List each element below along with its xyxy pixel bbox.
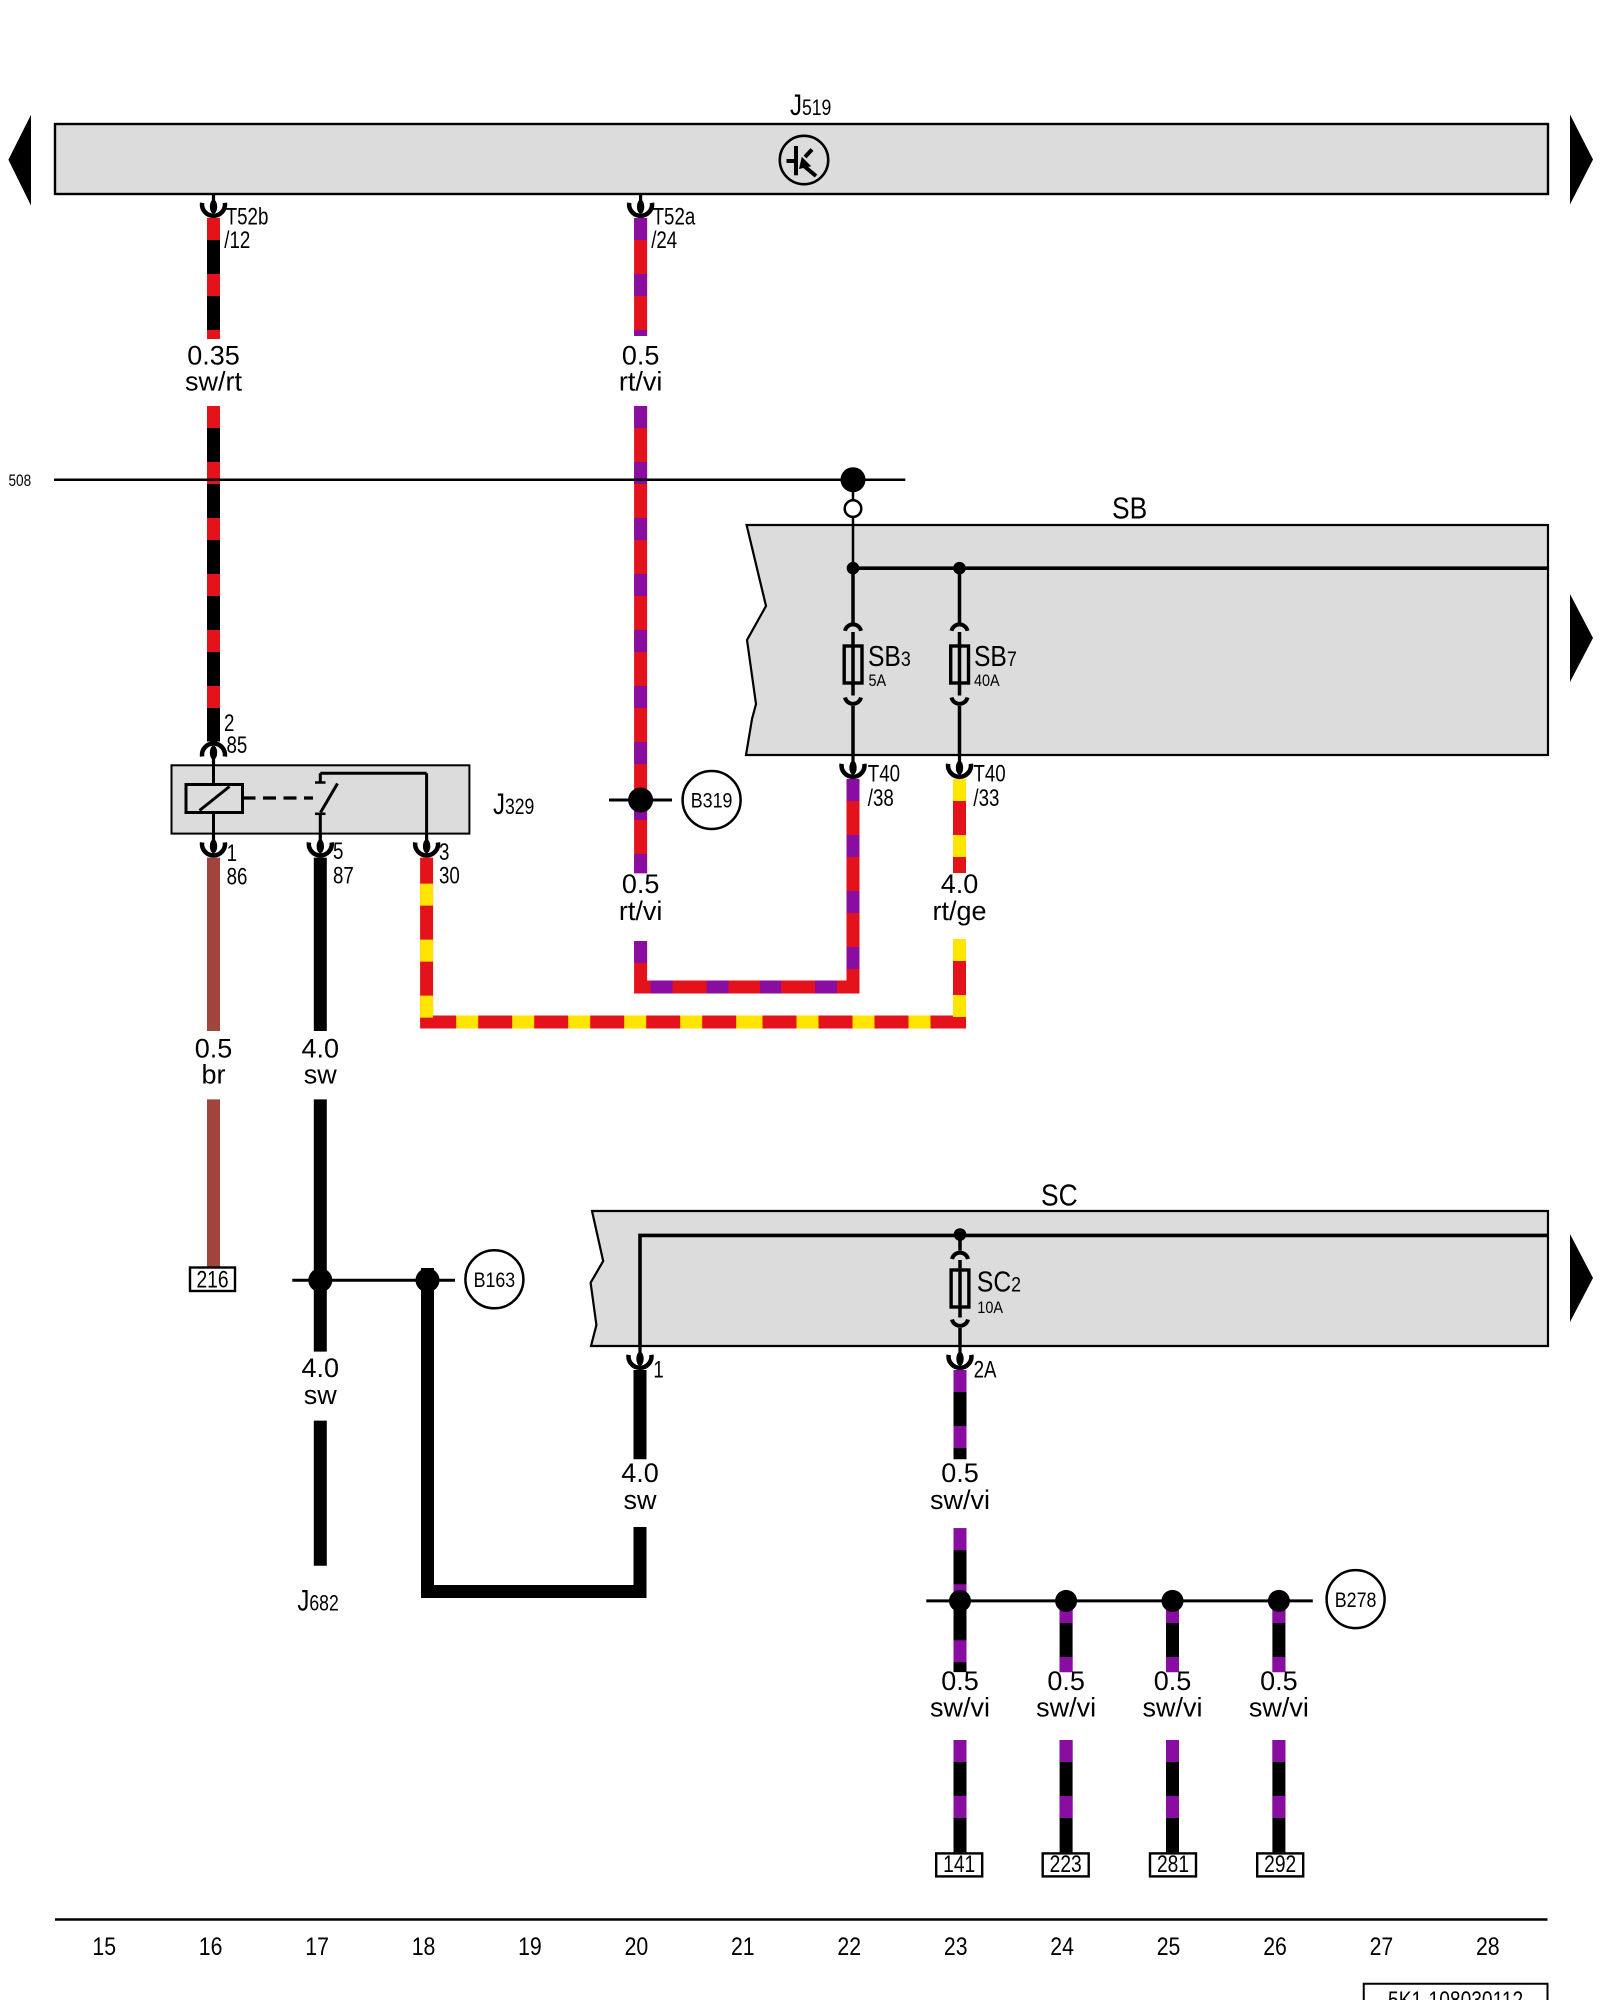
svg-text:27: 27 xyxy=(1370,1932,1394,1960)
svg-text:0.5: 0.5 xyxy=(1047,1666,1085,1696)
svg-text:SB: SB xyxy=(1112,492,1147,526)
svg-text:0.5: 0.5 xyxy=(1154,1666,1192,1696)
junction line B278 xyxy=(926,1599,1313,1602)
wire 0.5 sw/vi from 2A segment 1 xyxy=(954,1370,967,1459)
connection circle B163 xyxy=(465,1250,523,1308)
svg-text:17: 17 xyxy=(305,1932,329,1960)
wire sw/vi to terminal 292 xyxy=(1272,1740,1285,1853)
wire 0.5 rt/vi from T40/38 xyxy=(760,779,853,987)
wire 0.5 sw/vi segment 2 xyxy=(954,1528,967,1672)
junction dot B278 d xyxy=(1268,1590,1290,1612)
svg-text:sw: sw xyxy=(304,1380,338,1410)
fuse box SC xyxy=(591,1211,1548,1346)
wire 4.0 rt/ge (pin 30 to T40/33) xyxy=(427,858,755,1022)
fuse SB7 40A xyxy=(951,568,969,755)
svg-text:sw: sw xyxy=(304,1059,338,1089)
right arrow (SB continuation) xyxy=(1570,594,1593,682)
stub wire sw/vi col 24 xyxy=(1060,1601,1073,1672)
svg-text:508: 508 xyxy=(9,472,32,491)
svg-text:5K1-108030112: 5K1-108030112 xyxy=(1388,1986,1523,2000)
connector pin 1/86 xyxy=(202,834,225,856)
SB internal rail xyxy=(853,566,1548,570)
svg-text:18: 18 xyxy=(412,1932,436,1960)
wire 4.0 sw L-shape to SC xyxy=(428,1268,641,1592)
svg-text:4.0: 4.0 xyxy=(621,1458,659,1488)
junction dot B278 c xyxy=(1162,1590,1184,1612)
part number box xyxy=(1364,1984,1548,2000)
svg-text:40A: 40A xyxy=(974,672,1000,690)
connector T52b/12 xyxy=(202,194,225,216)
svg-text:sw/vi: sw/vi xyxy=(930,1485,990,1515)
feed line into SB xyxy=(852,490,855,501)
svg-text:br: br xyxy=(201,1059,225,1089)
connector 1 (SC) xyxy=(629,1346,652,1368)
svg-text:85: 85 xyxy=(227,732,248,759)
junction dot B319 xyxy=(628,788,653,813)
fuse box SB xyxy=(746,525,1548,755)
wire 4.0 sw segment 1 (pin 87) xyxy=(314,858,327,1031)
symbol: circled arrow inside J519 xyxy=(780,136,828,184)
relay coil xyxy=(186,765,243,833)
svg-text:2A: 2A xyxy=(974,1356,997,1383)
connection circle B319 xyxy=(683,771,741,829)
wire 0.5 br segment 1 xyxy=(207,858,220,1031)
svg-text:23: 23 xyxy=(944,1932,968,1960)
terminal box 141 xyxy=(936,1853,982,1876)
wire 0.5 rt/vi lower elbow xyxy=(641,941,760,987)
wire 4.0 sw to SC pin 1 xyxy=(634,1370,647,1459)
svg-text:21: 21 xyxy=(731,1932,755,1960)
wire sw/vi to terminal 223 xyxy=(1060,1740,1073,1853)
connector pin 5/87 xyxy=(309,834,332,856)
svg-text:87: 87 xyxy=(333,862,354,889)
terminal box 216 xyxy=(190,1268,235,1292)
connector pin 3/30 xyxy=(415,834,438,856)
junction dot B163 (feed to SC) xyxy=(416,1268,440,1292)
stub wire sw/vi col 25 xyxy=(1166,1601,1179,1672)
left arrow (bus continuation) xyxy=(8,115,31,206)
wire 0.35 sw/rt segment 1 xyxy=(207,218,220,339)
wire 0.5 br segment 2 xyxy=(207,1099,220,1267)
fuse SC2 10A xyxy=(951,1235,969,1347)
svg-text:292: 292 xyxy=(1264,1850,1296,1878)
wire 0.5 rt/vi segment 1 xyxy=(634,218,647,336)
right arrow (bus continuation J519) xyxy=(1570,115,1593,205)
connector pin 2/85 xyxy=(202,743,225,765)
svg-text:1: 1 xyxy=(653,1356,663,1383)
connector 2A (SC) xyxy=(949,1346,972,1368)
connector T52a/24 xyxy=(629,194,652,216)
junction dot B278 b xyxy=(1055,1590,1077,1612)
svg-text:15: 15 xyxy=(92,1932,116,1960)
junction dot on line 508 xyxy=(841,467,866,492)
fuse SB3 5A xyxy=(844,568,862,755)
svg-text:B319: B319 xyxy=(691,789,733,813)
junction dot B278 a xyxy=(949,1590,971,1612)
line 508 xyxy=(54,478,905,481)
open circle connection xyxy=(845,500,862,517)
svg-text:0.5: 0.5 xyxy=(1260,1666,1298,1696)
svg-text:sw: sw xyxy=(624,1485,658,1515)
right arrow (SC continuation) xyxy=(1570,1234,1593,1322)
bus bar: onboard supply control unit J519 xyxy=(55,124,1548,194)
svg-text:281: 281 xyxy=(1157,1850,1189,1878)
wire sw/vi to terminal 281 xyxy=(1166,1740,1179,1853)
relay switch contact xyxy=(315,773,427,833)
stub wire sw/vi col 26 xyxy=(1272,1601,1285,1672)
svg-text:sw/vi: sw/vi xyxy=(1143,1693,1203,1723)
svg-text:16: 16 xyxy=(199,1932,223,1960)
relay J329 box xyxy=(172,765,470,833)
rail dot SB3 xyxy=(847,562,860,575)
svg-text:T40: T40 xyxy=(868,760,900,787)
svg-text:SC: SC xyxy=(1041,1178,1078,1212)
svg-text:5A: 5A xyxy=(869,672,887,690)
svg-text:10A: 10A xyxy=(977,1299,1003,1317)
svg-text:B163: B163 xyxy=(474,1269,516,1293)
svg-text:25: 25 xyxy=(1157,1932,1181,1960)
wire sw/vi to terminal 141 xyxy=(954,1740,967,1853)
wire 0.35 sw/rt segment 2 xyxy=(207,406,220,742)
svg-text:/33: /33 xyxy=(973,785,999,812)
svg-text:rt/vi: rt/vi xyxy=(619,896,663,926)
svg-text:26: 26 xyxy=(1263,1932,1287,1960)
relay actuation link (dashed) xyxy=(243,796,314,799)
rail dot SB7 xyxy=(953,562,966,575)
svg-text:0.5: 0.5 xyxy=(941,1458,979,1488)
junction dot B163 (wire 87) xyxy=(308,1268,332,1292)
wire 4.0 sw segment 3 xyxy=(314,1421,327,1566)
svg-text:5: 5 xyxy=(333,838,343,865)
rail dot SC2 xyxy=(954,1228,967,1241)
SC internal rail xyxy=(640,1235,1548,1346)
svg-text:19: 19 xyxy=(518,1932,542,1960)
svg-text:sw/rt: sw/rt xyxy=(185,366,242,396)
junction line B319 xyxy=(609,799,672,802)
connector T40/33 xyxy=(948,755,971,777)
svg-text:0.5: 0.5 xyxy=(941,1666,979,1696)
svg-text:24: 24 xyxy=(1050,1932,1074,1960)
svg-text:sw/vi: sw/vi xyxy=(1036,1693,1096,1723)
wire 4.0 rt/ge top stub xyxy=(953,779,966,873)
svg-text:rt/vi: rt/vi xyxy=(619,366,663,396)
bottom rule xyxy=(55,1918,1548,1921)
svg-text:B278: B278 xyxy=(1335,1588,1377,1612)
svg-text:216: 216 xyxy=(196,1265,228,1293)
terminal box 223 xyxy=(1043,1853,1089,1876)
svg-text:22: 22 xyxy=(837,1932,861,1960)
wire 0.5 rt/vi segment 2 xyxy=(634,406,647,873)
svg-text:/12: /12 xyxy=(224,227,250,254)
svg-text:sw/vi: sw/vi xyxy=(1249,1693,1309,1723)
svg-text:0.5: 0.5 xyxy=(622,869,660,899)
svg-text:223: 223 xyxy=(1050,1850,1082,1878)
wire 4.0 rt/ge lower run xyxy=(755,939,960,1022)
connector T40/38 xyxy=(842,755,865,777)
svg-text:4.0: 4.0 xyxy=(302,1353,340,1383)
connection circle B278 xyxy=(1327,1570,1385,1628)
svg-text:28: 28 xyxy=(1476,1932,1500,1960)
svg-text:sw/vi: sw/vi xyxy=(930,1693,990,1723)
junction line B163 xyxy=(292,1279,455,1282)
svg-text:30: 30 xyxy=(439,862,460,889)
terminal box 292 xyxy=(1257,1853,1303,1876)
svg-text:T40: T40 xyxy=(973,760,1005,787)
svg-text:20: 20 xyxy=(625,1932,649,1960)
wire 4.0 sw segment 2 xyxy=(314,1099,327,1351)
svg-text:rt/ge: rt/ge xyxy=(932,896,986,926)
svg-text:/24: /24 xyxy=(651,227,677,254)
svg-text:141: 141 xyxy=(943,1850,975,1878)
svg-text:4.0: 4.0 xyxy=(941,869,979,899)
svg-text:86: 86 xyxy=(227,864,248,891)
terminal box 281 xyxy=(1150,1853,1196,1876)
svg-text:/38: /38 xyxy=(868,785,894,812)
